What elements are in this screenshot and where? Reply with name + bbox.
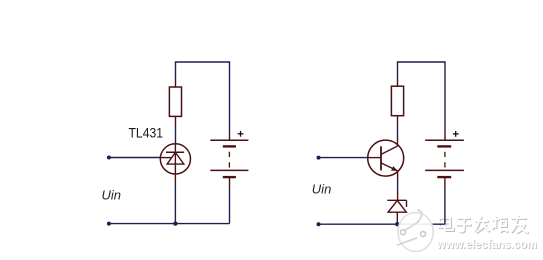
- svg-text:Uin: Uin: [312, 181, 332, 196]
- watermark text 电子发烧友 (approximated strokes): [439, 215, 529, 233]
- wire: resistor R2 top: [397, 61, 399, 86]
- terminal dot: left top, right circuit: [317, 156, 321, 160]
- wire: battery B1 bottom: [229, 177, 231, 224]
- wire: Q1 emitter to zener D1: [397, 171, 399, 200]
- wire: bottom rail right circuit: [319, 223, 445, 225]
- junction dot: D1/rail: [395, 222, 399, 226]
- terminal dot: left bottom, right circuit: [317, 222, 321, 226]
- terminal dot: left top, left circuit: [107, 156, 111, 160]
- wire: battery B1 top: [229, 61, 231, 140]
- wire: D1 to bottom rail: [396, 218, 398, 224]
- svg-text:Uin: Uin: [102, 188, 122, 203]
- wire: top rail right circuit: [398, 61, 446, 63]
- wire: R2 to Q1 collector: [397, 116, 399, 146]
- wire: resistor R1 top: [175, 61, 177, 87]
- junction dot: U1/rail: [173, 221, 177, 225]
- zener D1: [387, 200, 406, 218]
- wire: bottom rail left circuit: [109, 223, 230, 225]
- wire: U1 bottom to rail: [174, 174, 176, 224]
- resistor R1: [169, 87, 181, 116]
- svg-text:www.elecfans.com: www.elecfans.com: [436, 237, 537, 251]
- wire: base input right circuit: [319, 157, 368, 159]
- label + (B2): [453, 131, 459, 137]
- wire: left input top, left circuit: [109, 157, 160, 159]
- resistor R2: [391, 86, 403, 116]
- wire: battery B2 bottom: [444, 177, 446, 224]
- battery B1: [210, 140, 248, 177]
- wire: battery B2 top: [444, 61, 446, 140]
- wire: top rail left circuit: [176, 61, 230, 63]
- TL431 U1: [160, 144, 190, 174]
- wire: R1 to U1: [175, 116, 177, 144]
- terminal dot: left bottom, left circuit: [107, 222, 111, 226]
- svg-text:TL431: TL431: [129, 126, 164, 141]
- label + (B1): [238, 131, 244, 137]
- watermark logo: [397, 210, 434, 251]
- battery B2: [425, 140, 464, 177]
- transistor Q1: [368, 140, 404, 176]
